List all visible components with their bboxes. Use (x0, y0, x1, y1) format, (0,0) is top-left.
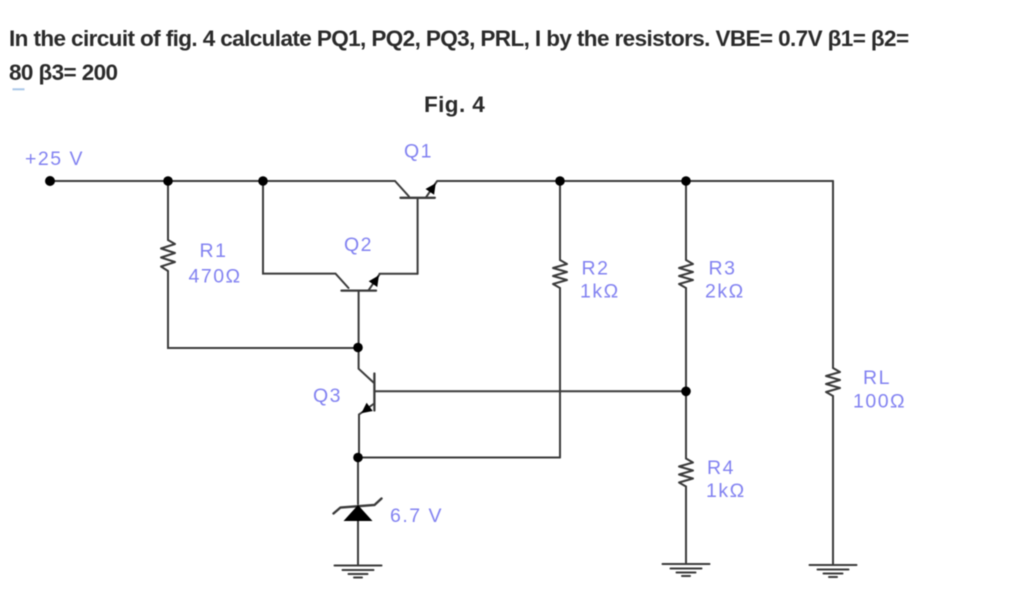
svg-text:470Ω: 470Ω (189, 266, 242, 288)
svg-text:R3: R3 (709, 258, 737, 280)
svg-text:1kΩ: 1kΩ (706, 480, 746, 502)
svg-text:Q1: Q1 (404, 141, 433, 163)
svg-text:Q2: Q2 (344, 234, 373, 256)
svg-text:100Ω: 100Ω (853, 391, 906, 413)
svg-text:RL: RL (863, 367, 891, 389)
svg-text:R2: R2 (582, 258, 610, 280)
svg-text:2kΩ: 2kΩ (705, 281, 745, 303)
svg-text:1kΩ: 1kΩ (580, 281, 620, 303)
svg-text:6.7 V: 6.7 V (390, 505, 443, 527)
svg-text:+25 V: +25 V (25, 148, 84, 170)
svg-text:Q3: Q3 (313, 385, 342, 407)
svg-text:R1: R1 (200, 240, 228, 262)
svg-text:R4: R4 (707, 457, 735, 479)
